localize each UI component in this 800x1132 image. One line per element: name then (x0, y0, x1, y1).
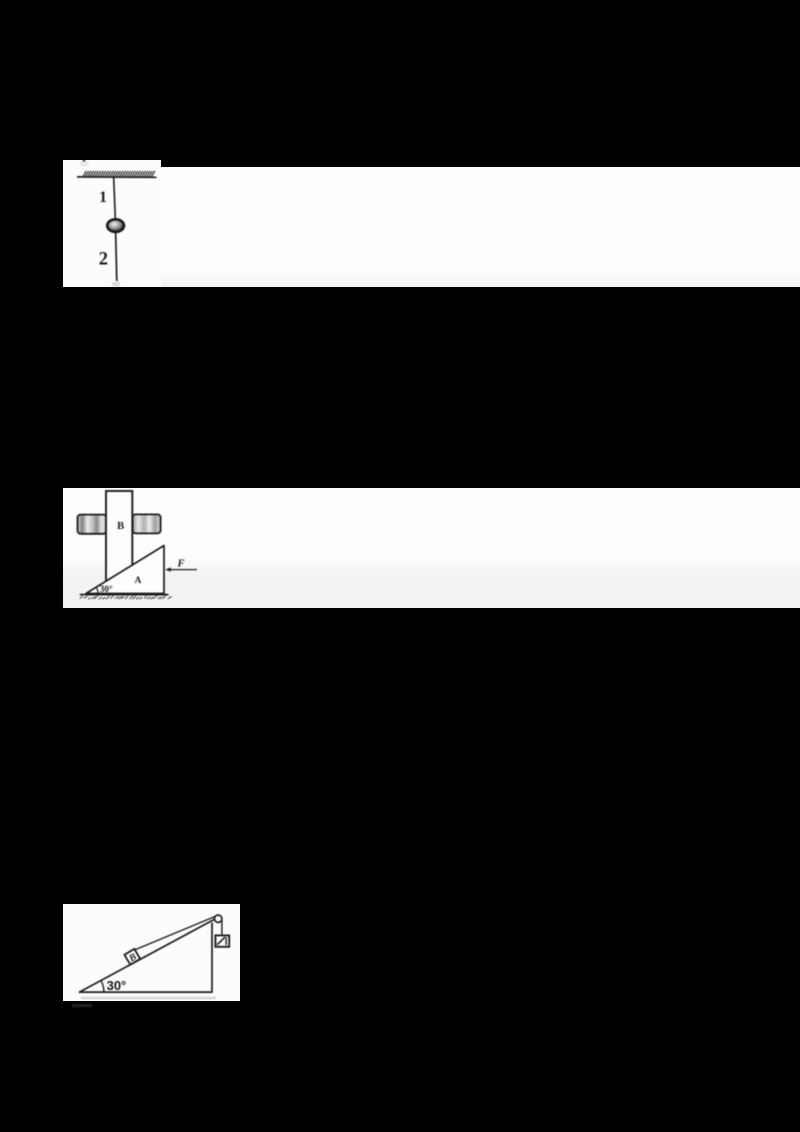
ground hatching (80, 596, 172, 600)
figure 3 white scan band (63, 904, 241, 1001)
string to hanging block (220, 920, 222, 935)
scan artifact notch top-left (80, 160, 89, 166)
incline triangle (79, 917, 217, 992)
hanging block (215, 935, 229, 946)
figure 1 white scan band left tall part (63, 160, 161, 287)
pulley (214, 915, 221, 922)
roller left of column B (78, 515, 107, 534)
svg-text:1: 1 (99, 189, 107, 206)
roller right of column B (133, 514, 161, 533)
block B on incline (124, 948, 140, 965)
force F arrow (165, 567, 197, 571)
figure 1 white scan band (63, 167, 800, 287)
svg-text:F: F (177, 559, 185, 570)
gray artifact dash below figure 3 (72, 1004, 93, 1007)
svg-text:30°: 30° (100, 584, 113, 594)
string 2 (116, 232, 117, 282)
string 2 end gray mark (112, 282, 120, 287)
svg-text:B: B (117, 520, 124, 532)
string along incline (134, 915, 217, 950)
ground line (80, 594, 169, 596)
baseline shadow (81, 996, 216, 998)
angle arc 30 deg wedge (96, 587, 98, 593)
ball (107, 219, 124, 232)
figure 2 white scan band (63, 488, 800, 608)
ceiling line (77, 176, 157, 178)
wedge A (86, 546, 164, 594)
svg-text:30°: 30° (106, 978, 126, 993)
angle arc 30 deg incline (100, 980, 103, 992)
string 1 (114, 178, 116, 219)
column B (106, 491, 132, 584)
ceiling hatching (83, 171, 155, 177)
svg-text:2: 2 (99, 250, 108, 270)
svg-text:A: A (135, 576, 142, 586)
